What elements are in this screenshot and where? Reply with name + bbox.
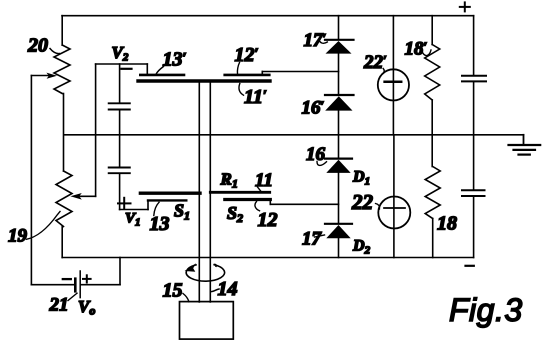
svg-text:V2: V2	[112, 43, 129, 64]
svg-text:S2: S2	[227, 203, 243, 225]
wire node V1	[120, 202, 148, 210]
wire top supply rail	[62, 15, 474, 17]
wire capacitor chain vertical	[119, 64, 121, 210]
svg-text:R1: R1	[220, 170, 238, 191]
svg-text:12: 12	[258, 209, 278, 231]
potentiometer 20	[54, 16, 70, 171]
shaft 14 (left line)	[198, 82, 200, 302]
svg-text:Fig.3: Fig.3	[449, 292, 523, 328]
label 21	[49, 293, 78, 315]
label 17	[302, 229, 325, 250]
wiper arrow of potentiometer 20	[31, 73, 57, 79]
label 15	[163, 280, 190, 302]
label 13	[150, 202, 170, 235]
capacitor plate S1 (movable, lower left)	[140, 191, 200, 194]
svg-text:19: 19	[8, 226, 28, 247]
label 11'	[239, 84, 267, 109]
capacitor plate 12' (fixed, upper right)	[225, 72, 270, 75]
resistor 18'	[425, 16, 440, 167]
capacitor plate 11 (movable, lower right)	[210, 191, 269, 194]
potentiometer 19	[56, 171, 72, 258]
svg-text:12′: 12′	[235, 44, 259, 66]
label 19	[8, 212, 60, 247]
label 13'	[156, 49, 187, 75]
svg-text:15: 15	[163, 280, 183, 302]
capacitor plate S2 (fixed, lower right)	[225, 200, 270, 205]
svg-text:17: 17	[302, 229, 323, 250]
svg-text:16′: 16′	[302, 98, 325, 119]
svg-text:13′: 13′	[163, 49, 187, 71]
battery polarity plus	[83, 275, 91, 282]
label 14	[211, 278, 238, 300]
wiper arrow of potentiometer 19	[70, 193, 95, 200]
current source 22	[378, 135, 410, 258]
wire left branch vertical (pot 20 wiper to battery minus)	[30, 76, 32, 285]
wire 12'-to-diode junction	[262, 71, 338, 73]
svg-text:18: 18	[437, 213, 457, 235]
svg-text:14: 14	[218, 278, 238, 300]
wire node V2 (top of capacitor chain)	[96, 63, 148, 65]
capacitor plate 13 (fixed, lower left)	[148, 199, 186, 201]
resistor 18	[425, 167, 440, 258]
node + (positive supply, top right)	[460, 2, 470, 11]
label 22	[351, 190, 380, 214]
wire vertical V2-to-wiper19	[95, 64, 97, 196]
motor 15 box	[180, 302, 234, 340]
capacitor C-lower	[109, 168, 130, 174]
capacitor plate 11' (movable, upper)	[138, 79, 270, 82]
diode 16'	[325, 95, 354, 111]
shaft 14 (right line)	[209, 82, 211, 302]
svg-text:16: 16	[306, 144, 326, 165]
svg-text:11′: 11′	[244, 86, 267, 108]
svg-text:13: 13	[150, 213, 170, 235]
diode 17 D2	[325, 224, 352, 239]
polarity plus at V1	[118, 198, 131, 209]
wire bottom rail	[62, 257, 473, 259]
label 16	[306, 144, 327, 165]
svg-text:D2: D2	[352, 238, 371, 257]
svg-text:22: 22	[351, 190, 374, 214]
capacitor output lower	[462, 135, 485, 258]
rotation arrow on shaft 14	[185, 263, 225, 281]
battery polarity minus	[63, 278, 71, 280]
label 12'	[235, 44, 259, 74]
polarity minus at V2	[122, 68, 132, 70]
capacitor output upper	[462, 16, 486, 135]
svg-text:S1: S1	[174, 201, 190, 223]
svg-text:20: 20	[27, 35, 48, 57]
wire diode column upper	[338, 16, 340, 135]
capacitor plate 13' (fixed, upper left)	[140, 64, 184, 75]
svg-text:21: 21	[49, 295, 69, 316]
battery 21 plates	[75, 271, 80, 298]
diode 16 D1	[325, 159, 352, 173]
label 17'	[304, 30, 328, 51]
wire S2-to-diode junction	[270, 203, 338, 205]
label 18'	[405, 39, 432, 60]
ground	[509, 135, 541, 155]
wire diode column lower	[338, 135, 340, 258]
diode 17'	[325, 40, 354, 54]
wire middle ground rail	[65, 134, 524, 136]
svg-text:17′: 17′	[304, 30, 327, 51]
svg-text:Vo: Vo	[78, 297, 95, 318]
label 11	[255, 170, 273, 191]
svg-text:V1: V1	[125, 211, 141, 229]
label 20	[27, 35, 60, 57]
svg-text:D1: D1	[352, 169, 370, 188]
svg-text:18′: 18′	[405, 39, 428, 60]
label 22'	[363, 52, 387, 74]
capacitor C-upper	[109, 103, 130, 109]
node - (negative, bottom right)	[466, 265, 474, 267]
battery 21 wires	[31, 258, 120, 285]
current source 22'	[378, 16, 409, 135]
label 12	[255, 202, 278, 232]
